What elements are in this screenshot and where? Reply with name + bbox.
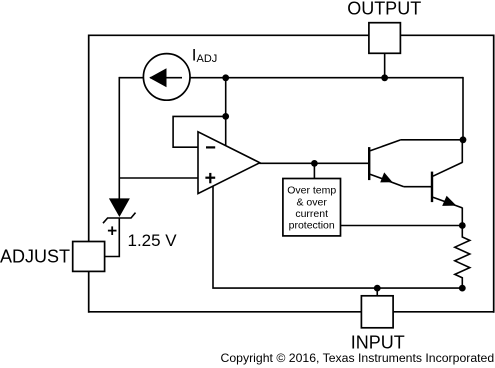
wire OUTPUT pad stub	[384, 53, 386, 77]
pin ADJUST pad	[73, 242, 105, 272]
wire rail corner down to collectors	[462, 77, 464, 140]
wire zener to ADJUST pad	[105, 218, 120, 257]
svg-text:OUTPUT: OUTPUT	[347, 0, 421, 18]
resistor	[455, 226, 470, 289]
transistor Q2	[432, 162, 462, 208]
wire right border	[493, 35, 495, 313]
junction feedback loop	[222, 113, 229, 120]
svg-text:ADJUST: ADJUST	[0, 247, 70, 267]
svg-text:protection: protection	[289, 220, 335, 232]
wire op-amp plus input	[119, 177, 198, 179]
current source IADJ	[143, 54, 190, 101]
wire Q1 emitter to Q2 base	[404, 186, 432, 188]
junction op-amp output / protection stub	[311, 160, 318, 167]
wire feedback loop to minus input	[173, 116, 226, 147]
junction at IADJ rail / OUTPUT stub	[381, 74, 388, 81]
transistor Q1	[369, 140, 404, 187]
wire op-amp output to Q1 base	[260, 162, 370, 164]
op-amp	[198, 132, 260, 194]
pin INPUT pad	[361, 296, 393, 328]
label IADJ	[192, 45, 218, 65]
node ADJUST label	[0, 247, 70, 267]
junction collector rail	[460, 136, 467, 143]
zener reference diode 1.25 V	[103, 198, 136, 235]
junction bottom rail / INPUT stub	[374, 285, 381, 292]
wire top border	[89, 34, 494, 36]
wire collector rail	[400, 139, 463, 141]
protection block	[283, 179, 341, 236]
wire protection box stub	[313, 163, 315, 178]
svg-text:INPUT: INPUT	[351, 332, 405, 352]
wire bottom internal rail	[213, 186, 462, 289]
copyright note	[221, 351, 495, 365]
value label 1.25 V	[128, 231, 178, 250]
wire Q2 collector vertical	[461, 140, 463, 163]
svg-text:1.25 V: 1.25 V	[128, 231, 178, 250]
wire Q2 emitter vertical	[461, 208, 463, 226]
node INPUT label	[351, 332, 405, 352]
svg-text:Over temp: Over temp	[287, 185, 336, 197]
pin OUTPUT pad	[369, 23, 401, 54]
svg-text:IADJ: IADJ	[192, 45, 218, 65]
wire left border	[88, 35, 90, 313]
junction bottom rail / resistor	[459, 285, 466, 292]
junction at IADJ rail / feedback	[222, 74, 229, 81]
svg-text:& over: & over	[297, 196, 328, 208]
wire bottom border	[89, 311, 494, 313]
node OUTPUT label	[347, 0, 421, 18]
wire protection box to emitter node	[341, 225, 463, 227]
wire INPUT pad stub	[376, 288, 378, 296]
svg-text:Copyright © 2016, Texas Instru: Copyright © 2016, Texas Instruments Inco…	[221, 351, 495, 365]
wire feedback vertical	[225, 77, 227, 147]
wire left branch vertical	[118, 77, 120, 199]
wire IADJ rail	[119, 77, 463, 79]
svg-text:current: current	[295, 208, 328, 220]
junction emitter / protection wire	[459, 222, 466, 229]
